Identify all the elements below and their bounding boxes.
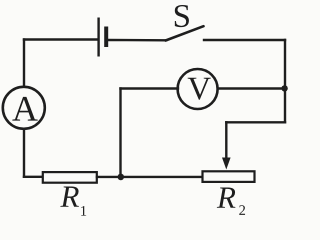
junction node: voltmeter tap on right wire [281, 85, 287, 91]
junction node: voltmeter tap on bottom wire [118, 174, 125, 181]
wire: top-left horizontal (ammeter branch to battery +) [24, 38, 98, 40]
wire: R1 right lead through junction to R2 left terminal [97, 176, 203, 178]
voltmeter V1 letter [188, 78, 211, 100]
resistor R1 body [43, 172, 97, 183]
label R1 [60, 187, 79, 207]
wire: right vertical run (top-right corner down to wiper corner) [284, 40, 286, 122]
label R2 [217, 188, 236, 208]
rheostat R2 wiper arrowhead [222, 158, 231, 170]
wire: left vertical, top-left corner to ammeter [23, 40, 25, 88]
wire: wiper horizontal run [226, 121, 285, 123]
wire: left vertical, ammeter to bottom-left corner [23, 129, 25, 177]
wire: bottom-left corner to R1 left lead [24, 176, 43, 178]
wire: voltmeter right lead to right-wire junction [217, 87, 284, 89]
label S [175, 5, 189, 27]
wire: wiper vertical drop onto R2 [225, 122, 227, 158]
wire: switch right contact to top-right corner [204, 39, 285, 41]
ammeter A1 letter [12, 97, 37, 121]
ammeter A1 body [3, 87, 45, 129]
wire: voltmeter left lead [121, 87, 179, 89]
battery B1 short plate (-) [104, 27, 108, 48]
wire: battery - terminal to switch left contact [107, 39, 166, 42]
voltmeter V1 body [178, 69, 218, 109]
wire: voltmeter branch vertical drop to bottom junction [119, 89, 121, 177]
switch S blade (open) [166, 26, 204, 40]
battery B1 long plate (+) [97, 18, 99, 57]
rheostat R2 body [203, 171, 255, 182]
